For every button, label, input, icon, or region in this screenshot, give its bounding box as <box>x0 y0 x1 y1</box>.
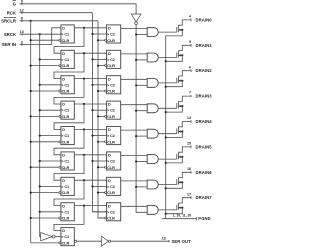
svg-text:DRAIN7: DRAIN7 <box>196 195 213 200</box>
transistor Q6 (DMOS, DRAIN6 driver) <box>166 172 191 188</box>
wire Q2 to FF3 D (inter-stage jog) <box>54 53 84 78</box>
svg-text:D: D <box>62 128 65 132</box>
svg-text:CLR: CLR <box>107 64 115 68</box>
flip-flop FF1 (shift register stage 1) <box>59 25 74 43</box>
junction source bus row 6 <box>165 162 167 164</box>
wire G(9) input line to inverter <box>20 4 137 14</box>
junction RCK bus row 6 <box>91 160 93 162</box>
wire RCK bus (x=92.5) <box>93 13 107 212</box>
wire AND gate A8 output to transistor Q7 gate <box>159 209 177 211</box>
wire latch L3 Q to AND gate A3 <box>121 78 148 80</box>
junction latch-clear bus row 3 <box>97 90 99 92</box>
wire latch-clear bus to latch L4 CLR <box>98 115 105 117</box>
wire SRCK bus to FF8 C1 <box>40 211 61 213</box>
junction G-bar bus row 7 <box>135 186 137 188</box>
svg-text:D: D <box>62 77 65 81</box>
svg-text:D: D <box>108 103 111 107</box>
svg-text:CLR: CLR <box>62 140 70 144</box>
junction node Q2 <box>83 52 85 54</box>
svg-text:16: 16 <box>187 167 191 171</box>
pin G number 9 <box>21 0 23 5</box>
wire FF5 Q to latch L5 D <box>74 128 106 130</box>
wire INV2 output to FF9 C1 <box>55 236 61 238</box>
svg-text:CLR: CLR <box>62 217 70 221</box>
wire FF7 Q to latch L7 D <box>74 179 106 181</box>
wire Q7 to FF8 D (inter-stage jog) <box>54 180 84 205</box>
pin PGND (1, 10, 11, 20) / ground <box>173 213 211 221</box>
pin DRAIN0 (4) <box>189 15 212 23</box>
junction RCK bus row 5 <box>91 135 93 137</box>
wire latch-clear bus to latch L8 CLR <box>98 217 105 219</box>
wire FF1 Q to latch L1 D <box>74 27 106 29</box>
wire FF9 output to INV3 <box>77 240 102 242</box>
junction source bus row 7 <box>165 187 167 189</box>
pin SRCK number 13 <box>20 30 24 35</box>
latch L7 (storage register stage 7) <box>105 177 121 195</box>
flip-flop FF6 (shift register stage 6) <box>59 152 74 170</box>
junction node Q4 <box>83 103 85 105</box>
wire latch L6 Q to AND gate A6 <box>121 155 148 157</box>
svg-text:PGND: PGND <box>198 216 211 221</box>
wire SRCLR bus (latch clear, x=98.0) <box>98 21 105 218</box>
svg-text:> C1: > C1 <box>61 210 69 214</box>
inverter INV2 (SRCK inverter for SER OUT stage) <box>41 233 55 241</box>
svg-text:D: D <box>62 204 65 208</box>
and-gate A6 (output driver gate) <box>147 155 158 164</box>
svg-text:14: 14 <box>187 116 191 120</box>
junction node Q3 <box>83 78 85 80</box>
svg-text:DRAIN4: DRAIN4 <box>196 119 213 124</box>
junction latch-clear bus row 7 <box>97 192 99 194</box>
junction SRCLR bus row 5 <box>30 141 32 143</box>
wire G-bar bus to AND gate A1 <box>136 34 147 36</box>
junction G-bar bus row 5 <box>135 135 137 137</box>
pin DRAIN3 (7) <box>189 91 212 99</box>
svg-text:CLR: CLR <box>107 166 115 170</box>
latch L1 (storage register stage 1) <box>105 25 121 43</box>
wire RCK bus to latch L5 C2 <box>93 135 107 137</box>
svg-text:SER IN: SER IN <box>2 42 16 47</box>
wire AND gate A1 output to transistor Q0 gate <box>159 31 177 33</box>
svg-text:DRAIN6: DRAIN6 <box>196 170 213 175</box>
svg-text:D: D <box>62 179 65 183</box>
wire latch L4 Q to AND gate A4 <box>121 104 148 106</box>
pin SRCLR number 8 <box>21 17 23 22</box>
wire latch-clear bus to latch L6 CLR <box>98 166 105 168</box>
pin DRAIN5 (15) <box>187 142 212 150</box>
junction RCK bus row 3 <box>91 84 93 86</box>
wire AND gate A3 output to transistor Q2 gate <box>159 82 177 84</box>
svg-text:7: 7 <box>189 91 191 95</box>
junction RCK bus row 4 <box>91 109 93 111</box>
svg-text:CLR: CLR <box>107 140 115 144</box>
svg-text:DRAIN2: DRAIN2 <box>196 68 213 73</box>
wire AND gate A5 output to transistor Q4 gate <box>159 133 177 135</box>
svg-text:D: D <box>108 179 111 183</box>
svg-text:> C2: > C2 <box>107 210 115 214</box>
svg-text:> C1: > C1 <box>61 134 69 138</box>
junction SRCK bus row 4 <box>39 109 41 111</box>
flip-flop FF4 (shift register stage 4) <box>59 101 74 119</box>
wire Q5 to FF6 D (inter-stage jog) <box>54 129 84 154</box>
wire AND gate A6 output to transistor Q5 gate <box>159 158 177 160</box>
wire Q1 to FF2 D (inter-stage jog) <box>54 28 84 53</box>
and-gate A8 (output driver gate) <box>147 205 158 214</box>
junction G-bar bus row 2 <box>135 59 137 61</box>
svg-text:> C2: > C2 <box>107 134 115 138</box>
svg-text:> C1: > C1 <box>61 58 69 62</box>
svg-text:15: 15 <box>187 142 191 146</box>
wire SRCK bus to FF5 C1 <box>40 135 61 137</box>
svg-text:CLR: CLR <box>107 217 115 221</box>
junction latch-clear bus row 2 <box>97 65 99 67</box>
wire SRCK bus to FF4 C1 <box>40 109 61 111</box>
svg-text:CLR: CLR <box>62 242 70 246</box>
svg-text:G: G <box>13 1 17 6</box>
flip-flop FF8 (shift register stage 8) <box>59 203 74 221</box>
transistor Q3 (DMOS, DRAIN3 driver) <box>166 96 191 112</box>
wire FF2 Q to latch L2 D <box>74 52 106 54</box>
svg-text:> C2: > C2 <box>107 58 115 62</box>
transistor Q5 (DMOS, DRAIN5 driver) <box>166 147 191 163</box>
pin DRAIN4 (14) <box>187 116 212 124</box>
flip-flop FF9 (SER OUT stage) <box>59 228 77 246</box>
svg-text:5: 5 <box>189 40 191 44</box>
pin SRCLR label <box>1 17 17 23</box>
svg-text:CLR: CLR <box>62 115 70 119</box>
svg-text:CLR: CLR <box>62 64 70 68</box>
junction source bus row 2 <box>165 60 167 62</box>
and-gate A1 (output driver gate) <box>147 28 158 37</box>
wire RCK bus to latch L4 C2 <box>93 109 107 111</box>
and-gate A7 (output driver gate) <box>147 180 158 189</box>
wire FF4 Q to latch L4 D <box>74 103 106 105</box>
wire SRCLR bus to FF5 CLR <box>31 141 59 143</box>
transistor Q1 (DMOS, DRAIN1 driver) <box>166 45 191 61</box>
junction latch-clear bus row 5 <box>97 141 99 143</box>
svg-text:D: D <box>108 77 111 81</box>
junction SRCLR bus row 3 <box>30 90 32 92</box>
junction SRCK line to SRCK bus <box>39 33 41 35</box>
svg-text:D: D <box>108 27 111 31</box>
wire SRCLR bus to FF8 CLR <box>31 217 59 219</box>
svg-text:> C1: > C1 <box>61 185 69 189</box>
wire Q4 to FF5 D (inter-stage jog) <box>54 104 84 129</box>
wire Q6 to FF7 D (inter-stage jog) <box>54 155 84 180</box>
junction latch-clear bus row 1 <box>97 39 99 41</box>
junction source bus row 5 <box>165 136 167 138</box>
wire SRCK bus to FF7 C1 <box>40 185 61 187</box>
svg-text:D: D <box>108 52 111 56</box>
svg-text:D: D <box>62 27 65 31</box>
svg-text:D: D <box>62 52 65 56</box>
and-gate A2 (output driver gate) <box>147 53 158 62</box>
svg-text:18: 18 <box>162 237 166 241</box>
svg-text:D: D <box>62 103 65 107</box>
wire Q8 to FF9 D (inter-stage jog) <box>54 206 84 231</box>
and-gate A4 (output driver gate) <box>147 104 158 113</box>
svg-text:D: D <box>108 154 111 158</box>
wire FF6 Q to latch L6 D <box>74 154 106 156</box>
wire G-bar bus (x=136.1) <box>136 25 147 213</box>
wire latch-clear bus to latch L5 CLR <box>98 141 105 143</box>
junction SRCLR bus row 8 <box>30 217 32 219</box>
wire source bus to PGND (x=165.7) <box>165 36 167 219</box>
and-gate A3 (output driver gate) <box>147 78 158 87</box>
junction RCK bus row 2 <box>91 58 93 60</box>
wire latch L2 Q to AND gate A2 <box>121 53 148 55</box>
wire latch-clear bus to latch L3 CLR <box>98 90 105 92</box>
junction node Q1 <box>83 27 85 29</box>
junction SRCLR bus row 4 <box>30 115 32 117</box>
junction SRCK bus row 5 <box>39 135 41 137</box>
pin DRAIN7 (17) <box>187 192 212 200</box>
svg-text:CLR: CLR <box>62 90 70 94</box>
svg-text:CLR: CLR <box>107 90 115 94</box>
junction RCK bus row 1 <box>91 33 93 35</box>
transistor Q4 (DMOS, DRAIN4 driver) <box>166 122 191 138</box>
wire G-bar bus to AND gate A7 <box>136 186 147 188</box>
wire RCK bus to latch L1 C2 <box>93 33 107 35</box>
junction SRCLR bus row 6 <box>30 166 32 168</box>
wire INV3 output to SER OUT pin <box>111 240 169 242</box>
wire latch L1 Q to AND gate A1 <box>121 28 148 30</box>
junction source bus row 8 <box>165 213 167 215</box>
flip-flop FF5 (shift register stage 5) <box>59 127 74 145</box>
svg-text:D: D <box>108 128 111 132</box>
latch L5 (storage register stage 5) <box>105 127 121 145</box>
wire SRCLR bus to FF4 CLR <box>31 115 59 117</box>
flip-flop FF2 (shift register stage 2) <box>59 50 74 68</box>
wire RCK bus to latch L2 C2 <box>93 58 107 60</box>
wire SRCLR bus to FF2 CLR <box>31 65 59 67</box>
and-gate A5 (output driver gate) <box>147 129 158 138</box>
wire RCK bus to latch L8 C2 <box>93 211 107 213</box>
svg-text:> C1: > C1 <box>61 235 69 239</box>
svg-text:6: 6 <box>189 65 191 69</box>
junction SRCK bus row 6 <box>39 160 41 162</box>
junction node Q8 <box>83 205 85 207</box>
wire RCK bus to latch L3 C2 <box>93 84 107 86</box>
latch L3 (storage register stage 3) <box>105 76 121 94</box>
wire G-bar bus to AND gate A4 <box>136 110 147 112</box>
junction node Q6 <box>83 154 85 156</box>
svg-text:RCK: RCK <box>7 10 17 15</box>
svg-text:4: 4 <box>189 15 191 19</box>
inverter INV1 (G enable, output-enable bubble) <box>131 14 141 25</box>
transistor Q0 (DMOS, DRAIN0 driver) <box>166 20 191 36</box>
pin G label <box>13 0 17 6</box>
svg-text:SER OUT: SER OUT <box>172 239 192 244</box>
wire latch-clear bus to latch L1 CLR <box>98 39 105 41</box>
transistor Q7 (DMOS, DRAIN7 driver) <box>166 198 191 214</box>
wire FF3 Q to latch L3 D <box>74 78 106 80</box>
svg-text:> C1: > C1 <box>61 83 69 87</box>
junction G-bar bus row 4 <box>135 110 137 112</box>
junction source bus row 3 <box>165 86 167 88</box>
wire Q3 to FF4 D (inter-stage jog) <box>54 79 84 104</box>
svg-text:SRCLR: SRCLR <box>1 18 17 23</box>
wire FF8 Q to latch L8 D <box>74 205 106 207</box>
svg-text:> C2: > C2 <box>107 109 115 113</box>
wire SRCK bus to FF3 C1 <box>40 84 61 86</box>
svg-text:D: D <box>108 204 111 208</box>
pin SER IN number 3 <box>21 40 23 45</box>
wire SRCK(13) input line to FF1 C1 <box>20 33 61 35</box>
wire latch-clear bus to latch L7 CLR <box>98 192 105 194</box>
junction latch-clear bus row 6 <box>97 166 99 168</box>
wire G-bar bus to AND gate A6 <box>136 161 147 163</box>
inverter INV3 (SER OUT driver) <box>102 236 111 246</box>
wire SRCLR bus to FF3 CLR <box>31 90 59 92</box>
junction SRCK bus row 3 <box>39 84 41 86</box>
junction SRCLR bus row 1 <box>30 39 32 41</box>
wire RCK bus to latch L7 C2 <box>93 185 107 187</box>
svg-text:> C2: > C2 <box>107 160 115 164</box>
wire SRCK bus to FF6 C1 <box>40 160 61 162</box>
svg-text:> C1: > C1 <box>61 33 69 37</box>
svg-text:DRAIN3: DRAIN3 <box>196 94 213 99</box>
junction G-bar bus row 3 <box>135 84 137 86</box>
wire SRCLR(8) input line <box>20 20 99 22</box>
junction SRCLR line to shift-register clear bus <box>30 20 32 22</box>
wire G-bar bus to AND gate A3 <box>136 84 147 86</box>
svg-text:D: D <box>62 154 65 158</box>
junction latch-clear bus row 4 <box>97 115 99 117</box>
wire SRCK bus to FF2 C1 <box>40 58 61 60</box>
latch L4 (storage register stage 4) <box>105 101 121 119</box>
svg-text:> C1: > C1 <box>61 160 69 164</box>
junction SRCK bus row 7 <box>39 185 41 187</box>
transistor Q2 (DMOS, DRAIN2 driver) <box>166 71 191 87</box>
junction RCK bus row 7 <box>91 185 93 187</box>
junction node Q7 <box>83 179 85 181</box>
junction SRCK bus row 2 <box>39 58 41 60</box>
svg-text:1, 10, 11, 20: 1, 10, 11, 20 <box>173 213 192 217</box>
junction source bus row 4 <box>165 111 167 113</box>
wire latch L5 Q to AND gate A5 <box>121 129 148 131</box>
latch L6 (storage register stage 6) <box>105 152 121 170</box>
wire AND gate A2 output to transistor Q1 gate <box>159 57 177 59</box>
junction SRCLR bus row 2 <box>30 65 32 67</box>
svg-text:SRCK: SRCK <box>4 32 17 37</box>
svg-text:CLR: CLR <box>62 166 70 170</box>
svg-text:CLR: CLR <box>107 191 115 195</box>
svg-text:17: 17 <box>187 192 191 196</box>
svg-text:> C2: > C2 <box>107 185 115 189</box>
wire latch-clear bus to latch L2 CLR <box>98 65 105 67</box>
wire SRCLR bus (shift register clear, x=30.7) <box>31 21 59 243</box>
junction node Q5 <box>83 128 85 130</box>
pin DRAIN1 (5) <box>189 40 212 48</box>
svg-text:CLR: CLR <box>62 191 70 195</box>
wire SER IN(3) input line rising to FF1 D <box>20 28 61 45</box>
wire AND gate A7 output to transistor Q6 gate <box>159 184 177 186</box>
pin RCK label <box>7 10 17 15</box>
pin SRCK label <box>4 32 17 37</box>
svg-text:D: D <box>62 229 65 233</box>
svg-text:DRAIN1: DRAIN1 <box>196 43 213 48</box>
junction G-bar bus row 6 <box>135 160 137 162</box>
flip-flop FF3 (shift register stage 3) <box>59 76 74 94</box>
pin SER OUT (18) <box>162 237 191 244</box>
wire G-bar bus to AND gate A2 <box>136 59 147 61</box>
pin SER IN label <box>2 42 16 47</box>
pin RCK number 12 <box>20 9 24 14</box>
wire G-bar bus to AND gate A5 <box>136 135 147 137</box>
junction SRCK bus row 8 <box>39 211 41 213</box>
latch L2 (storage register stage 2) <box>105 50 121 68</box>
svg-text:CLR: CLR <box>107 39 115 43</box>
latch L8 (storage register stage 8) <box>105 203 121 221</box>
pin DRAIN6 (16) <box>187 167 212 175</box>
pin DRAIN2 (6) <box>189 65 212 73</box>
svg-text:DRAIN5: DRAIN5 <box>196 144 213 149</box>
svg-text:> C1: > C1 <box>61 109 69 113</box>
wire latch L8 Q to AND gate A8 <box>121 205 148 207</box>
junction G-bar bus row 1 <box>135 33 137 35</box>
wire SRCLR bus to FF6 CLR <box>31 166 59 168</box>
svg-text:> C2: > C2 <box>107 83 115 87</box>
junction SRCLR bus row 7 <box>30 192 32 194</box>
wire SRCK bus (x=39.7) <box>40 34 41 236</box>
wire latch L7 Q to AND gate A7 <box>121 180 148 182</box>
svg-text:> C2: > C2 <box>107 33 115 37</box>
svg-text:DRAIN0: DRAIN0 <box>196 17 213 22</box>
flip-flop FF7 (shift register stage 7) <box>59 177 74 195</box>
wire RCK bus to latch L6 C2 <box>93 160 107 162</box>
svg-text:CLR: CLR <box>62 39 70 43</box>
wire AND gate A4 output to transistor Q3 gate <box>159 107 177 109</box>
wire SRCLR bus to FF7 CLR <box>31 192 59 194</box>
wire SRCLR bus to FF1 CLR <box>31 39 59 41</box>
svg-text:CLR: CLR <box>107 115 115 119</box>
wire RCK(12) input line <box>20 12 93 14</box>
